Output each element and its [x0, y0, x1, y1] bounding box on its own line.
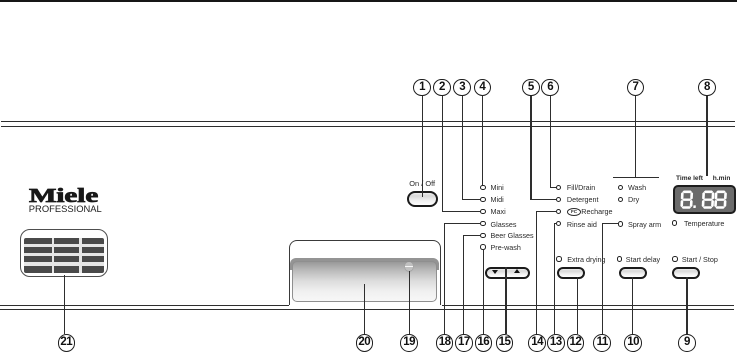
LED Beer Glasses — [480, 233, 485, 238]
LED Start / Stop — [672, 256, 677, 261]
LED Wash — [618, 185, 623, 190]
callout circle 11 — [593, 334, 611, 352]
leader 11 vertical from Spray arm — [602, 223, 603, 334]
fascia bottom line left of dispenser — [0, 305, 289, 307]
callout circle 12 — [567, 334, 585, 352]
LED Pre-wash — [480, 244, 485, 249]
leader 3 vertical to Midi — [462, 96, 463, 200]
leader 2 horizontal — [442, 211, 482, 212]
LED Midi — [480, 197, 485, 202]
callout circle 21 — [58, 334, 76, 352]
leader 20 from dispenser lid — [364, 284, 365, 334]
leader 15 through up/down button divider — [505, 267, 506, 334]
LED Detergent — [556, 197, 561, 202]
leader 6 horizontal — [550, 187, 557, 188]
LED Start delay — [617, 256, 622, 261]
callout circle 5 — [522, 79, 540, 97]
label Spray arm — [628, 221, 661, 228]
leader 17 vertical from Beer Glasses — [463, 235, 464, 334]
dispenser knob slot — [405, 266, 414, 268]
leader 18 vertical from Glasses — [444, 223, 445, 334]
program select down/up button — [485, 267, 530, 279]
up triangle — [514, 269, 520, 273]
callout circle 20 — [356, 334, 374, 352]
LED Recharge — [556, 209, 561, 214]
callout circle 4 — [474, 79, 492, 97]
LED Maxi — [480, 209, 485, 214]
callout circle 15 — [496, 334, 514, 352]
fascia bottom line 2 — [0, 309, 734, 311]
Extra drying button — [557, 267, 585, 279]
dispenser knob — [405, 262, 414, 271]
leader 2 vertical to Maxi — [442, 96, 443, 212]
ventilation grille slats — [24, 238, 105, 273]
callout circle 2 — [433, 79, 451, 97]
dispenser lid front — [292, 261, 438, 302]
label Dry — [628, 196, 639, 203]
label Fill/Drain — [567, 184, 595, 191]
7-segment digits 8.88 — [673, 185, 736, 214]
leader 19 from dispenser knob — [409, 271, 410, 334]
callout circle 10 — [624, 334, 642, 352]
leader 7 vertical — [635, 96, 636, 178]
callout circle 6 — [541, 79, 559, 97]
callout circle 8 — [698, 79, 716, 97]
callout circle 9 — [678, 334, 696, 352]
leader 4 to Mini LED — [482, 96, 483, 185]
dispenser outer outline — [289, 240, 442, 306]
leader 13 vertical from Rinse aid — [554, 223, 555, 334]
leader 9 from Start/Stop button — [686, 277, 687, 334]
leader 8 vertical — [706, 96, 707, 176]
leader 5 horizontal — [530, 199, 556, 200]
callout circle 16 — [475, 334, 493, 352]
callout circle 13 — [547, 334, 565, 352]
leader 14 horizontal — [536, 211, 557, 212]
PROFESSIONAL wordmark — [29, 203, 102, 214]
label Start delay — [626, 256, 660, 263]
leader 1 to On/Off button — [422, 96, 423, 197]
LED Glasses — [480, 221, 485, 226]
leader 5 vertical to Detergent — [530, 96, 531, 200]
label Midi — [491, 196, 504, 203]
callout circle 7 — [627, 79, 645, 97]
FC oval icon — [567, 208, 581, 216]
callout circle 1 — [413, 79, 431, 97]
leader 16 from Pre-wash — [483, 249, 484, 334]
dispenser lid rim — [290, 258, 440, 270]
label Time left — [676, 175, 703, 182]
On / Off button — [407, 191, 438, 207]
label Wash — [628, 184, 646, 191]
label h.min — [713, 175, 731, 182]
LED Extra drying — [556, 256, 561, 261]
LED Dry — [618, 197, 623, 202]
leader 3 horizontal — [462, 199, 481, 200]
leader 11 horizontal — [602, 223, 618, 224]
top edge line of machine — [0, 0, 737, 2]
label Extra drying — [567, 256, 605, 263]
leader 12 from Extra drying button — [577, 277, 578, 335]
leader 17 horizontal — [463, 235, 481, 236]
Start / Stop button — [672, 267, 700, 279]
label Rinse aid — [567, 221, 597, 228]
label Mini — [491, 184, 504, 191]
leader 6 vertical to Fill/Drain — [550, 96, 551, 188]
LED Rinse aid — [556, 221, 561, 226]
label Maxi — [491, 208, 506, 215]
ventilation grille outer frame — [20, 229, 108, 277]
callout circle 14 — [528, 334, 546, 352]
leader 21 from grille — [64, 275, 65, 334]
fascia top double line 1 — [1, 121, 735, 123]
label Beer Glasses — [491, 232, 534, 239]
leader 18 horizontal — [444, 223, 481, 224]
time display housing — [673, 185, 736, 214]
leader 14 vertical from Recharge — [536, 211, 537, 334]
label Start / Stop — [682, 256, 718, 263]
leader 10 from Start delay button — [632, 277, 633, 334]
label Recharge — [581, 208, 612, 215]
fascia top double line 2 — [1, 126, 735, 128]
label Pre-wash — [491, 244, 521, 251]
leader 13 horizontal — [554, 223, 557, 224]
label Detergent — [567, 196, 599, 203]
Start delay button — [619, 267, 647, 279]
fascia bottom line right of dispenser — [442, 305, 735, 307]
callout circle 17 — [455, 334, 473, 352]
callout circle 19 — [400, 334, 418, 352]
LED Spray arm — [618, 221, 623, 226]
callout circle 3 — [453, 79, 471, 97]
label Glasses — [491, 221, 517, 228]
callout circle 18 — [436, 334, 454, 352]
LED Fill/Drain — [556, 185, 561, 190]
On / Off label — [409, 180, 435, 187]
leader 7 T-bar — [613, 177, 659, 178]
LED Temperature — [672, 220, 677, 225]
LED Mini — [480, 185, 485, 190]
label Temperature — [684, 220, 724, 227]
Miele logo — [29, 185, 98, 208]
down triangle — [492, 270, 498, 274]
